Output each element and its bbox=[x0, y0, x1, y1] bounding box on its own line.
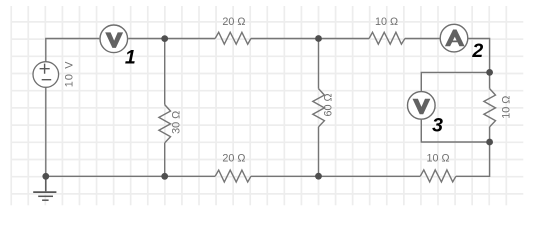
wire node A to resistor R2 bbox=[165, 38, 215, 40]
svg-text:1: 1 bbox=[125, 46, 136, 68]
wire node B to resistor R4 bbox=[319, 38, 370, 40]
wire R1 to node E bbox=[164, 143, 166, 176]
svg-text:20 Ω: 20 Ω bbox=[222, 153, 245, 165]
node F bbox=[315, 173, 322, 180]
node A bbox=[161, 35, 168, 42]
voltmeter U1 V bbox=[100, 25, 136, 68]
ground bbox=[33, 176, 56, 200]
node E bbox=[161, 173, 168, 180]
wire node C to voltmeter V3 top bbox=[421, 72, 489, 91]
resistor R1 30Ω vertical bbox=[159, 105, 183, 143]
resistor R5 20Ω bottom bbox=[215, 153, 251, 182]
node G bbox=[42, 173, 49, 180]
wire voltmeter V3 bottom to node D bbox=[421, 120, 489, 142]
svg-text:10 Ω: 10 Ω bbox=[375, 16, 398, 28]
svg-text:10 Ω: 10 Ω bbox=[500, 96, 512, 119]
wire node B to resistor R3 bbox=[318, 39, 320, 89]
wire node A to resistor R1 bbox=[164, 39, 166, 105]
resistor R3 60Ω vertical bbox=[313, 89, 335, 127]
wire R6 to node D bbox=[489, 127, 491, 142]
svg-text:30 Ω: 30 Ω bbox=[171, 111, 183, 134]
voltmeter U3 V bbox=[408, 92, 444, 137]
wire source bottom to node G bbox=[45, 88, 47, 177]
wire R2 to node B bbox=[251, 38, 319, 40]
wire R3 to node F bbox=[318, 127, 320, 176]
ammeter U2 A bbox=[440, 24, 483, 62]
resistor R6 10Ω right vertical bbox=[484, 89, 513, 127]
node B bbox=[315, 35, 322, 42]
svg-text:10 V: 10 V bbox=[63, 60, 75, 87]
svg-text:20 Ω: 20 Ω bbox=[222, 16, 245, 28]
svg-text:60 Ω: 60 Ω bbox=[323, 93, 335, 116]
svg-text:2: 2 bbox=[471, 40, 483, 62]
wire R5 to node G ground rail bbox=[46, 175, 215, 177]
wire node C to resistor R6 bbox=[489, 72, 491, 88]
wire V1 to node A bbox=[128, 38, 164, 40]
wire A2 to node C bbox=[469, 39, 490, 73]
svg-text:3: 3 bbox=[432, 115, 443, 137]
wire node F to resistor R5 bbox=[251, 175, 319, 177]
node C bbox=[486, 69, 493, 76]
wire node D down to bottom rail bbox=[456, 142, 490, 176]
node D bbox=[486, 139, 493, 146]
wire R4 to ammeter A2 bbox=[405, 38, 440, 40]
wire top-left from source to V1 bbox=[46, 39, 100, 62]
resistor R4 10Ω top bbox=[369, 16, 405, 44]
wire R7 to node F bbox=[319, 175, 421, 177]
resistor R7 10Ω bottom bbox=[420, 153, 456, 182]
svg-text:10 Ω: 10 Ω bbox=[426, 153, 449, 165]
resistor R2 20Ω top bbox=[215, 16, 251, 44]
voltage source VS 10V bbox=[33, 60, 75, 87]
